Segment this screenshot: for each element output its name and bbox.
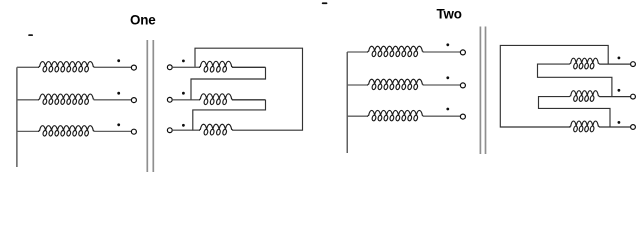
wire: connector Sb start to Sc junction (Two, S-shaped link): [539, 97, 611, 127]
wire: winding Sa to terminal (Two): [600, 63, 631, 65]
wire: winding PA to terminal (One): [94, 66, 132, 68]
terminal H2 (Two primary, open circle): [460, 83, 465, 88]
wire: winding PB to terminal (Two): [423, 84, 461, 86]
inductor winding PB (Two primary phase B): [367, 79, 423, 89]
polarity dot (Two secondary b): [618, 89, 621, 92]
wire: winding Sb end to connector (One): [232, 99, 266, 101]
inductor winding Sb (One secondary phase b): [199, 94, 233, 105]
inductor winding PA (Two primary phase A): [367, 46, 423, 56]
wire: One primary neutral bus: [16, 67, 18, 167]
polarity dot (One primary C): [117, 123, 120, 126]
wire: winding Sa end to connector (One): [232, 66, 266, 68]
stray mark (scan artifact dash, upper left): [28, 34, 33, 36]
inductor winding Sb (Two secondary phase b): [569, 91, 599, 102]
wire: bus to winding PA (Two): [347, 51, 368, 53]
inductor winding PC (Two primary phase C): [367, 110, 423, 120]
polarity dot (Two primary B): [446, 76, 449, 79]
terminal X3 (Two secondary, open circle): [631, 125, 636, 130]
wire: One secondary delta loop (S1 start - top rail - right side - S3 end): [195, 48, 303, 130]
terminal H2 (One primary, open circle): [131, 98, 136, 103]
inductor winding Sa (Two secondary phase a): [569, 58, 599, 69]
polarity dot (Two primary C): [446, 108, 449, 111]
polarity dot (Two primary A): [446, 43, 449, 46]
transformer core (One), double bar: [147, 40, 153, 172]
polarity dot (One secondary b): [182, 92, 185, 95]
transformer core (Two), double bar: [480, 27, 485, 155]
wire: terminal X3 to winding Sc (One): [172, 129, 200, 131]
polarity dot (One secondary a): [182, 60, 185, 63]
wire: winding PB to terminal (One): [94, 99, 132, 101]
wire: winding PC to terminal (One): [94, 130, 132, 132]
polarity dot (Two secondary a): [618, 57, 621, 60]
wire: terminal X1 to winding Sa (One): [172, 66, 200, 68]
stray mark (scan artifact dash, top middle): [322, 2, 328, 4]
terminal H3 (One primary, open circle): [131, 129, 136, 134]
wire: bus to winding PC (Two): [347, 115, 368, 117]
inductor winding PA (One primary phase A): [38, 62, 94, 72]
wire: bus to winding PA (One): [17, 66, 39, 68]
inductor winding PB (One primary phase B): [38, 94, 94, 104]
wire: connector Sa end to Sb start (One, S-shaped link): [191, 67, 266, 100]
wire: connector Sb end to Sc start (One, S-shaped link): [193, 100, 266, 130]
inductor winding Sc (One secondary phase c): [199, 124, 233, 135]
wire: terminal X2 to winding Sb (One): [172, 99, 200, 101]
wire: bus to winding PC (One): [17, 130, 39, 132]
wire: connector Sa start to Sb junction (Two, S-shaped link): [538, 64, 612, 97]
terminal H3 (Two primary, open circle): [460, 114, 465, 119]
polarity dot (One primary A): [117, 59, 120, 62]
terminal X1 (One secondary, open circle): [167, 65, 172, 70]
svg-text:Two: Two: [437, 6, 462, 21]
wire: bus to winding PB (Two): [347, 84, 368, 86]
inductor winding Sa (One secondary phase a): [199, 61, 233, 72]
wire: winding Sc to terminal (Two): [600, 126, 631, 128]
polarity dot (One primary B): [117, 92, 120, 95]
svg-text:One: One: [130, 13, 155, 28]
terminal X1 (Two secondary, open circle): [631, 62, 636, 67]
terminal X3 (One secondary, open circle): [167, 128, 172, 133]
wire: Two primary neutral bus: [346, 52, 348, 153]
inductor winding Sc (Two secondary phase c): [569, 121, 599, 132]
wire: winding PA to terminal (Two): [423, 51, 461, 53]
inductor winding PC (One primary phase C): [38, 126, 94, 136]
wire: winding PC to terminal (Two): [423, 115, 461, 117]
polarity dot (Two secondary c): [618, 121, 621, 124]
terminal X2 (Two secondary, open circle): [631, 94, 636, 99]
terminal H1 (Two primary, open circle): [460, 50, 465, 55]
terminal X2 (One secondary, open circle): [167, 97, 172, 102]
wire: bus to winding PB (One): [17, 99, 39, 101]
wire: Two secondary delta loop (S1 start - top rail - left side - S3 end): [500, 45, 608, 127]
polarity dot (One secondary c): [182, 124, 185, 127]
wire: winding Sb to terminal (Two): [600, 96, 631, 98]
terminal H1 (One primary, open circle): [131, 65, 136, 70]
